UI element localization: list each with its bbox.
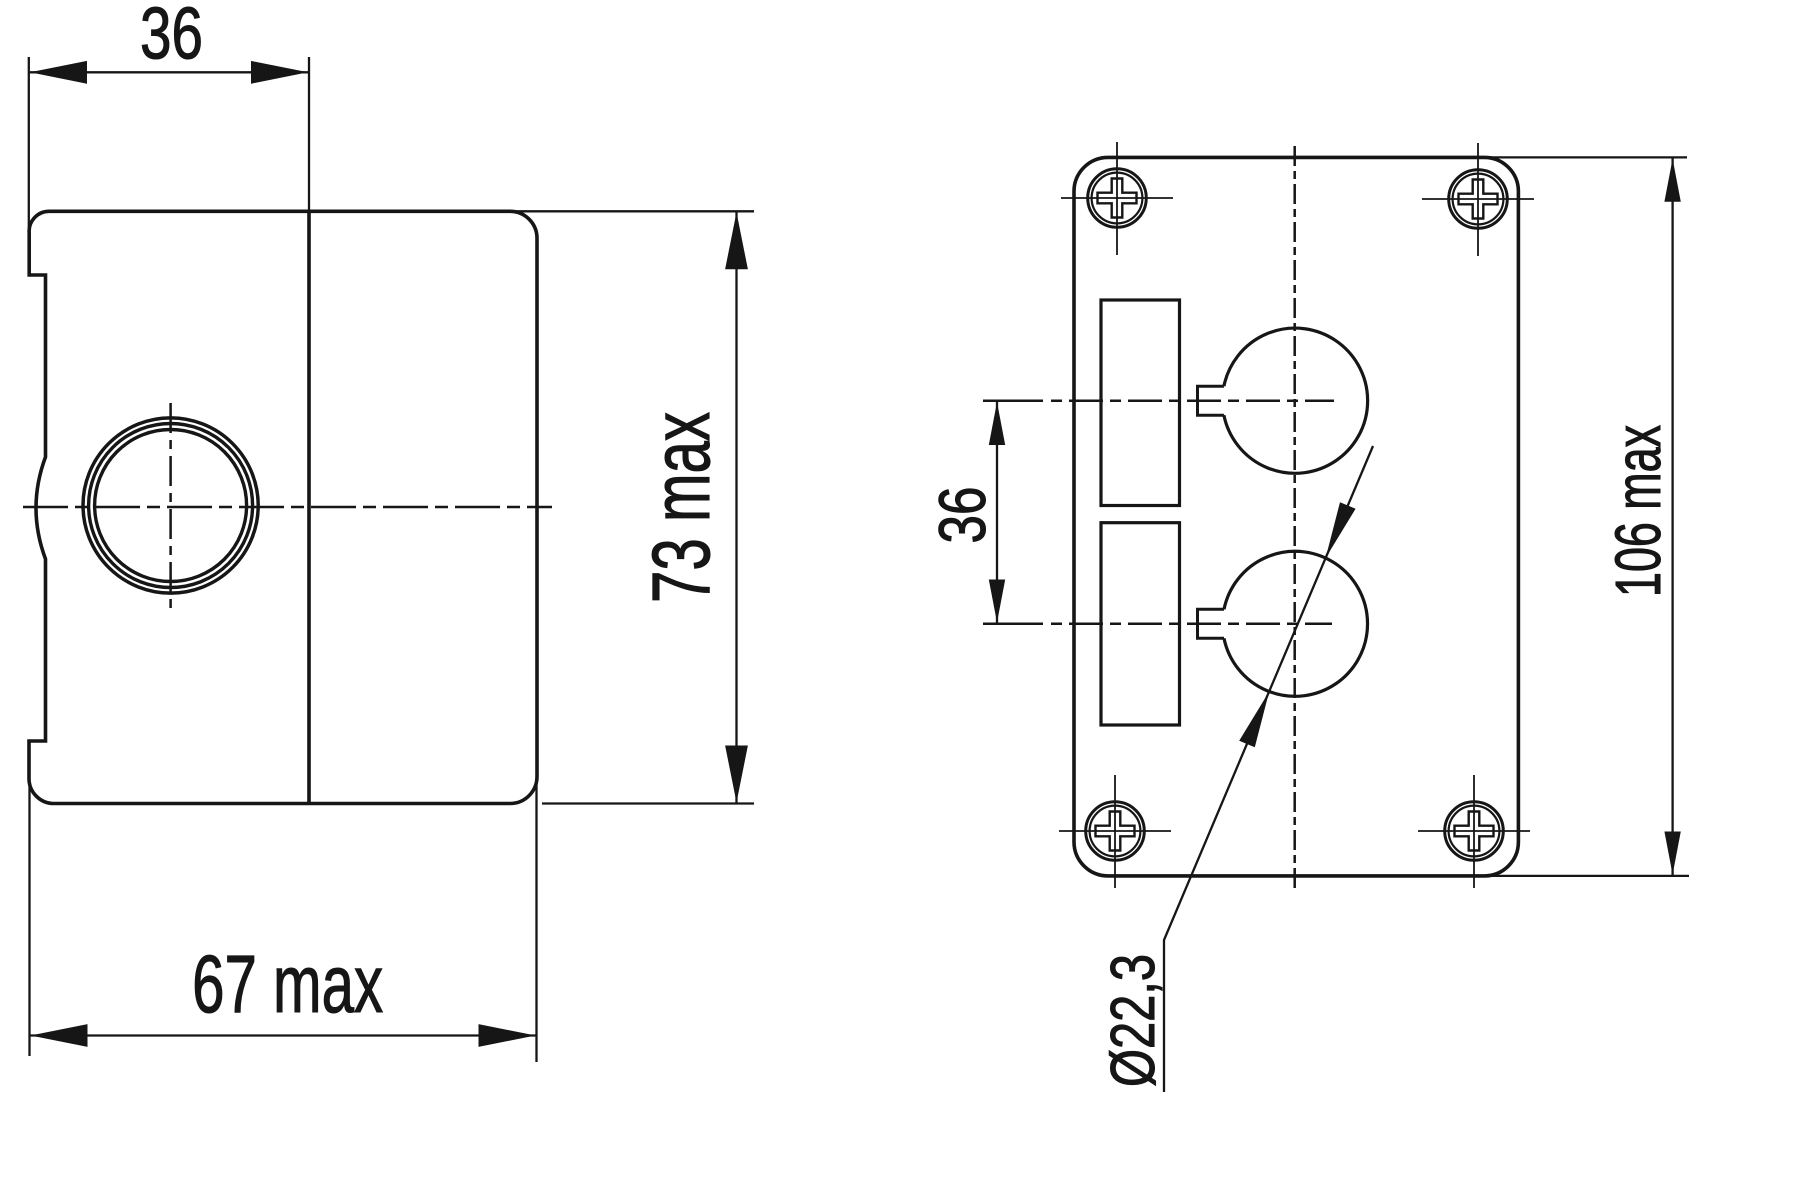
screw TR crosshair vertical bbox=[1477, 143, 1479, 256]
screw TL outer circle bbox=[1088, 169, 1147, 228]
button collar ring middle bbox=[89, 424, 253, 588]
screw TL crosshair horizontal bbox=[1061, 197, 1173, 199]
svg-text:36: 36 bbox=[140, 0, 203, 75]
screw BL crosshair horizontal bbox=[1059, 830, 1171, 832]
front panel split line bbox=[307, 211, 311, 803]
leader line diagonal bbox=[1164, 446, 1373, 1092]
screw BR inner circle bbox=[1449, 806, 1500, 857]
dim 67 max arrow right bbox=[479, 1024, 536, 1047]
screw TR crosshair horizontal bbox=[1422, 198, 1534, 200]
mounting plate rear view outline bbox=[1074, 157, 1518, 876]
dim 106 max dimension line bbox=[1671, 157, 1673, 876]
dim 67 max arrow left bbox=[31, 1024, 88, 1047]
screw TR phillips cross bbox=[1459, 180, 1498, 219]
rear view vertical centerline bbox=[1293, 146, 1296, 891]
screw TR outer circle bbox=[1449, 170, 1508, 229]
svg-text:73 max: 73 max bbox=[636, 412, 727, 603]
screw TL crosshair vertical bbox=[1116, 142, 1118, 255]
button hole upper circle bbox=[1224, 328, 1368, 473]
screw BL outer circle bbox=[1086, 802, 1145, 861]
dim 36 arrow right bbox=[251, 61, 308, 84]
dim 106 max top extension line bbox=[1484, 156, 1687, 158]
leader arrow lower bbox=[1239, 692, 1269, 748]
dim 106 max arrow top bbox=[1664, 159, 1680, 202]
dim 73 max arrow bottom bbox=[725, 746, 748, 803]
screw TR inner circle bbox=[1453, 174, 1504, 225]
dim 36 vertical arrow top bbox=[989, 402, 1005, 445]
dim 73 max top extension line bbox=[512, 210, 754, 212]
terminal cutout rectangle lower bbox=[1101, 523, 1180, 725]
dim 36 right extension line bbox=[308, 57, 310, 212]
screw BL inner circle bbox=[1090, 806, 1141, 857]
screw BL phillips cross bbox=[1096, 812, 1135, 851]
dim 36 left extension line bbox=[28, 57, 30, 238]
dim 36 vertical dimension line bbox=[996, 401, 998, 624]
screw BL crosshair vertical bbox=[1114, 775, 1116, 888]
dim 67 max right extension line bbox=[535, 779, 537, 1062]
button hole upper notch bbox=[1198, 386, 1224, 415]
upper hole horizontal centerline bbox=[983, 399, 1043, 402]
dim 36 vertical arrow bottom bbox=[989, 580, 1005, 623]
leader arrow upper bbox=[1326, 502, 1356, 558]
screw TL inner circle bbox=[1092, 173, 1143, 224]
button collar ring outer bbox=[83, 418, 258, 593]
screw BR crosshair horizontal bbox=[1418, 830, 1530, 832]
svg-text:106 max: 106 max bbox=[1602, 425, 1674, 597]
side view horizontal centerline bbox=[23, 506, 552, 509]
dim 73 max dimension line bbox=[735, 211, 737, 803]
screw BR phillips cross bbox=[1455, 812, 1494, 851]
svg-text:67 max: 67 max bbox=[192, 939, 383, 1030]
enclosure side view outline bbox=[29, 211, 537, 803]
screw BR crosshair vertical bbox=[1473, 775, 1475, 888]
dim 36 arrow left bbox=[30, 61, 87, 84]
dim 106 max arrow bottom bbox=[1664, 832, 1680, 875]
dim 67 max dimension line bbox=[30, 1034, 537, 1036]
svg-text:Ø22,3: Ø22,3 bbox=[1098, 954, 1168, 1087]
dim 67 max left extension line bbox=[28, 786, 30, 1056]
dim 106 max bottom extension line bbox=[1484, 875, 1689, 877]
screw TL phillips cross bbox=[1098, 179, 1137, 218]
button hole lower notch bbox=[1198, 609, 1225, 638]
dim 73 max arrow top bbox=[725, 212, 748, 269]
button hole lower circle bbox=[1224, 551, 1368, 696]
svg-text:36: 36 bbox=[926, 487, 999, 544]
button collar ring inner bbox=[95, 430, 247, 582]
screw BR outer circle bbox=[1445, 802, 1504, 861]
terminal cutout rectangle upper bbox=[1101, 300, 1180, 506]
side view vertical centerline bbox=[169, 403, 172, 610]
dim 73 max bottom extension line bbox=[542, 802, 754, 804]
dim 36 dimension line bbox=[29, 71, 309, 73]
lower hole horizontal centerline bbox=[983, 623, 1043, 626]
